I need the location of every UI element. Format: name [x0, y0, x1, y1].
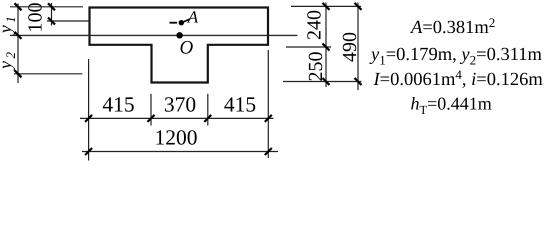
tick 1200-left [85, 148, 92, 155]
svg-text:100: 100 [25, 3, 47, 33]
bottom extension line flange-right [267, 50, 269, 158]
dim line 100 [51, 3, 53, 26]
svg-text:1200: 1200 [155, 125, 198, 149]
svg-text:490: 490 [339, 32, 361, 62]
tick 370-415 [204, 115, 211, 122]
tick 240 top [323, 3, 330, 10]
tick 415-right [265, 115, 272, 122]
svg-text:415: 415 [102, 93, 134, 117]
bottom dim line 1200 [82, 151, 278, 153]
left dim line y1/y2 [17, 4, 19, 84]
top-left extension line [10, 6, 83, 8]
svg-text:A: A [187, 8, 199, 27]
tick 415-370 [148, 115, 155, 122]
tick 415-left [85, 115, 92, 122]
tick 1200-right [265, 148, 272, 155]
tick 240 bottom [323, 44, 330, 51]
svg-text:415: 415 [224, 93, 256, 117]
bottom extension line web-left [150, 94, 152, 126]
tick y-dim top [15, 3, 22, 10]
bottom-left extension line [14, 73, 82, 75]
tick 490 bottom [355, 78, 362, 85]
bottom dim line 415/370/415 [80, 117, 274, 119]
svg-text:240: 240 [304, 10, 326, 40]
tick 250 bottom [323, 78, 330, 85]
point A tick line [170, 22, 178, 24]
point A dot [179, 20, 184, 25]
centroid axis through O [10, 34, 298, 36]
right dim line 240/250 [325, 3, 327, 88]
point A leader [184, 19, 191, 22]
bottom extension line flange-left [88, 59, 90, 161]
right dim line 490 [357, 3, 359, 91]
svg-text:370: 370 [164, 93, 196, 117]
tick 100 top [48, 3, 55, 10]
tick y-dim bottom [15, 70, 22, 77]
right top extension line [291, 5, 361, 7]
tick 100 bottom [48, 18, 55, 25]
point O dot [176, 32, 182, 38]
bottom extension line web-right [207, 94, 209, 126]
T-section outline [90, 8, 269, 83]
svg-text:O: O [180, 38, 194, 59]
extension line at A level [47, 20, 89, 22]
svg-text:A=0.381m2: A=0.381m2 [409, 15, 495, 38]
tick y-dim centroid [15, 32, 22, 39]
right bottom extension line [283, 81, 362, 83]
svg-text:y1=0.179m, y2=0.311m: y1=0.179m, y2=0.311m [369, 45, 543, 68]
tick 490 top [355, 3, 362, 10]
right middle extension line [286, 46, 331, 48]
svg-text:250: 250 [305, 52, 327, 82]
